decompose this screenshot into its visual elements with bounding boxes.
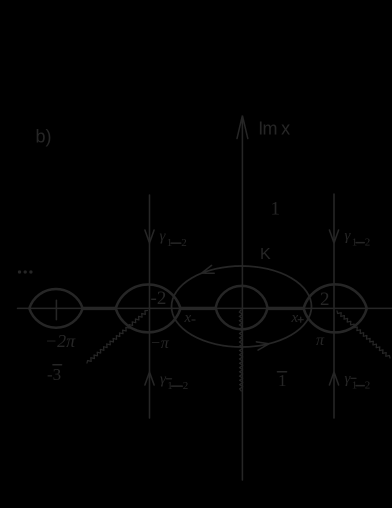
node: center tick of -2pi lens [55, 300, 57, 319]
node: K arrowhead lower right (ccw) [256, 342, 269, 350]
node: up arrowhead on left contour [145, 372, 154, 385]
svg-text:-2: -2 [151, 288, 167, 309]
wire: wavy branch cut from origin straight down [239, 310, 243, 391]
lens at origin [216, 286, 268, 329]
svg-text:2: 2 [181, 237, 187, 249]
node: up arrowhead on right contour [329, 372, 338, 385]
svg-text:x: x [184, 310, 192, 326]
svg-text:Im x: Im x [258, 119, 290, 139]
wire: bold branch-cut segment between origin lens and pi lens [267, 307, 304, 310]
wire: right contour line gamma 1-2 vertical [333, 194, 335, 418]
svg-text:π: π [316, 332, 325, 349]
wire: wavy branch cut from -pi lens down-left [87, 311, 148, 364]
wire: wavy branch cut from pi lens down-right [337, 311, 390, 358]
contour K: large ellipse around origin [172, 266, 312, 347]
svg-text:K: K [260, 246, 271, 263]
svg-text:2: 2 [183, 380, 189, 392]
svg-text:-3: -3 [47, 365, 61, 384]
svg-text:1: 1 [271, 199, 281, 220]
svg-text:−π: −π [150, 335, 170, 352]
svg-text:2: 2 [365, 380, 371, 392]
node: down arrowhead on left contour [145, 230, 154, 243]
wire: bold branch-cut segment between -2pi and -pi lenses [83, 307, 117, 310]
node: K arrowhead upper left (ccw) [202, 265, 215, 273]
svg-text:x: x [291, 310, 299, 326]
capacitor-like lens at -2pi (branch point) [29, 289, 82, 328]
lens at pi (branch point) [304, 284, 367, 332]
wire: bold branch-cut segment between -pi lens and origin lens [181, 307, 216, 310]
lens at -pi (branch point) [116, 284, 181, 332]
svg-text:2: 2 [365, 237, 371, 249]
svg-text:1: 1 [278, 371, 287, 390]
svg-text:b): b) [36, 127, 52, 147]
node: down arrowhead on right contour [329, 230, 338, 243]
wire: real axis Re x [18, 307, 392, 309]
svg-text:−2π: −2π [45, 331, 76, 351]
node: ellipsis dots continuing left [18, 270, 21, 273]
wire: left contour line gamma 1-2 vertical [149, 195, 151, 418]
svg-text:2: 2 [320, 289, 330, 310]
node: Im axis arrowhead [237, 116, 248, 139]
wire: imaginary axis Im x [241, 117, 243, 480]
